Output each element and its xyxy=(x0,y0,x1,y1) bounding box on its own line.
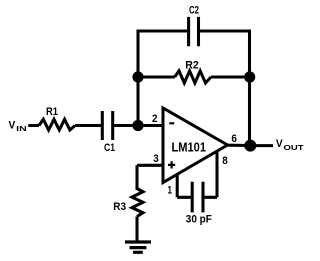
svg-text:30 pF: 30 pF xyxy=(186,213,212,225)
wire pin 6 output xyxy=(227,144,250,147)
junction node A summing input xyxy=(132,120,143,131)
resistor R1 xyxy=(39,119,75,130)
resistor R3 xyxy=(132,189,143,217)
svg-text:OUT: OUT xyxy=(284,145,305,152)
svg-text:C2: C2 xyxy=(189,4,199,16)
wire R3 to ground xyxy=(135,217,138,241)
resistor R2 xyxy=(175,71,211,83)
svg-text:R3: R3 xyxy=(113,201,126,213)
plus sign pin 3 xyxy=(168,161,175,168)
node VOUT label xyxy=(276,138,305,152)
svg-text:2: 2 xyxy=(152,113,158,125)
op-amp U1 LM101 xyxy=(163,108,228,183)
svg-text:V: V xyxy=(9,120,16,132)
wire C2 top rail right segment xyxy=(199,29,251,32)
wire VIN to R1 xyxy=(28,124,39,127)
svg-text:8: 8 xyxy=(222,155,228,167)
svg-text:C1: C1 xyxy=(104,142,115,154)
compensation capacitor 30 pF xyxy=(192,182,203,213)
ground xyxy=(125,242,151,252)
svg-text:V: V xyxy=(276,138,283,150)
svg-text:3: 3 xyxy=(153,153,159,165)
svg-text:R1: R1 xyxy=(46,106,58,118)
wire R1 to C1 xyxy=(75,124,101,127)
svg-text:LM101: LM101 xyxy=(172,139,207,154)
wire right column C2 to R2 xyxy=(248,30,251,77)
pin 8 wire xyxy=(203,151,217,197)
wire left feedback node up to C2 rail xyxy=(136,30,139,77)
wire C1 to node A xyxy=(113,124,138,127)
capacitor C2 xyxy=(189,17,199,46)
wire R2 right xyxy=(211,75,250,78)
wire node A up to feedback rail xyxy=(136,77,139,126)
junction left feedback node xyxy=(132,71,143,82)
wire node A to pin 2 xyxy=(138,124,163,127)
svg-text:R2: R2 xyxy=(185,59,199,71)
wire R2 left xyxy=(138,75,175,78)
wire right column R2 to output node xyxy=(248,77,251,146)
wire C2 top rail left segment xyxy=(137,29,188,32)
svg-text:IN: IN xyxy=(16,126,27,133)
svg-text:1: 1 xyxy=(168,185,173,197)
svg-text:6: 6 xyxy=(231,133,237,145)
junction right feedback node xyxy=(244,71,255,82)
minus sign pin 2 xyxy=(169,122,174,124)
pin 1 wire xyxy=(177,174,191,198)
junction output node xyxy=(244,140,256,152)
capacitor C1 xyxy=(102,111,112,140)
node VIN label xyxy=(9,120,27,133)
pin 3 wire xyxy=(137,165,163,190)
wire output to VOUT xyxy=(250,144,273,147)
